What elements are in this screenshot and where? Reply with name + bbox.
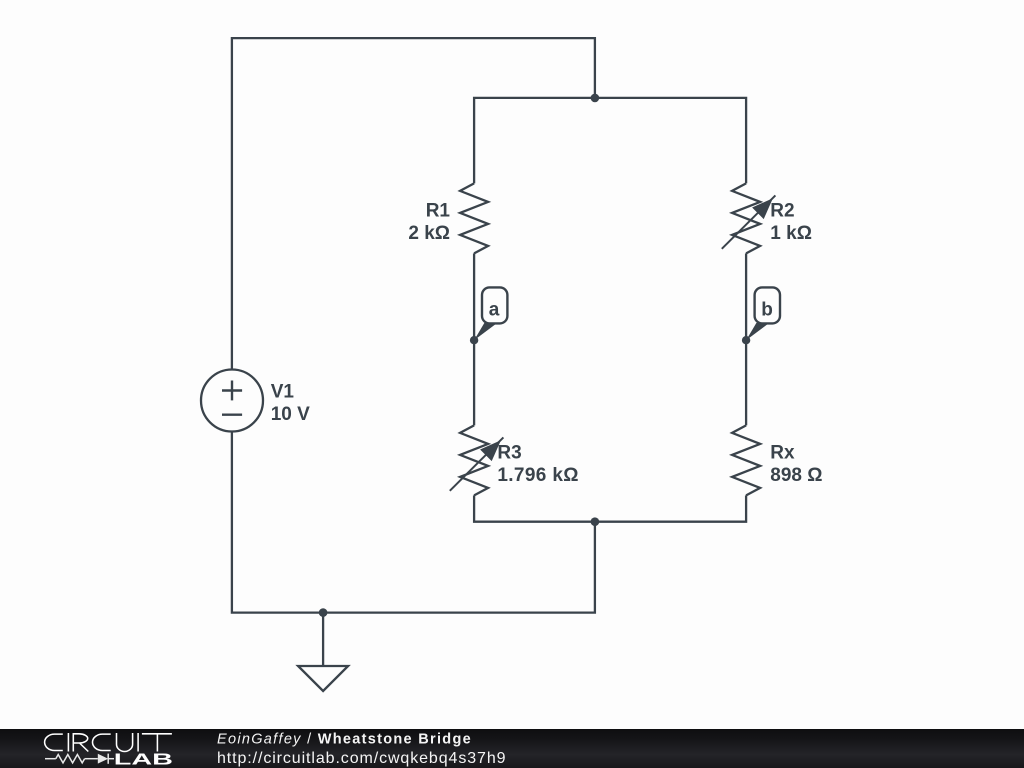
svg-text:EoinGaffey / Wheatstone Bridge: EoinGaffey / Wheatstone Bridge (217, 732, 472, 748)
svg-text:898 Ω: 898 Ω (770, 465, 822, 486)
svg-text:R3: R3 (497, 442, 521, 463)
svg-text:10 V: 10 V (271, 404, 310, 425)
svg-text:1.796 kΩ: 1.796 kΩ (497, 465, 578, 486)
svg-text:Rx: Rx (770, 442, 795, 463)
svg-text:V1: V1 (271, 381, 295, 402)
svg-text:b: b (761, 299, 773, 320)
svg-text:LAB: LAB (114, 751, 173, 768)
svg-text:http://circuitlab.com/cwqkebq4: http://circuitlab.com/cwqkebq4s37h9 (217, 750, 506, 767)
svg-text:a: a (489, 299, 500, 320)
svg-text:2 kΩ: 2 kΩ (408, 223, 450, 244)
svg-text:R1: R1 (426, 200, 451, 221)
svg-text:R2: R2 (770, 200, 794, 221)
svg-text:1 kΩ: 1 kΩ (770, 223, 812, 244)
